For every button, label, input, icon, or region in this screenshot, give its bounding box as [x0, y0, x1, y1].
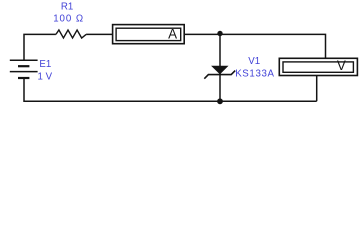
wire bottom rail to battery bottom [24, 78, 317, 101]
wire voltmeter bottom to bottom rail [316, 76, 318, 102]
svg-text:V: V [337, 58, 346, 73]
wire ammeter to top-right corner down to voltmeter top [184, 34, 325, 58]
svg-text:A: A [168, 27, 177, 42]
battery E1 plate short bottom [18, 77, 29, 79]
voltmeter inner box [283, 62, 353, 72]
zener diode V1 triangle [212, 66, 228, 74]
battery E1 plate long lower [10, 71, 38, 73]
svg-text:1 V: 1 V [38, 72, 53, 83]
wire diode branch vertical [219, 34, 221, 101]
voltmeter outer box [279, 58, 357, 75]
wire left: battery top to top rail to resistor [24, 34, 56, 60]
resistor R1 [56, 30, 86, 38]
svg-text:100 Ω: 100 Ω [53, 14, 84, 25]
battery E1 plate long top [10, 59, 38, 61]
svg-text:E1: E1 [39, 59, 51, 70]
node junction bottom [217, 98, 223, 104]
ammeter outer box [113, 25, 185, 44]
ammeter inner box [116, 28, 181, 40]
battery E1 plate short upper [18, 65, 29, 67]
wire resistor to ammeter [86, 33, 113, 35]
svg-text:KS133A: KS133A [235, 68, 274, 79]
svg-text:R1: R1 [61, 2, 73, 13]
node junction top [217, 31, 222, 36]
zener diode V1 cathode bar with bent ends [204, 71, 235, 79]
svg-text:V1: V1 [248, 56, 260, 67]
